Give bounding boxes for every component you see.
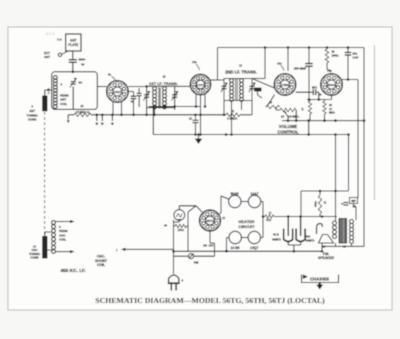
svg-text:1/2 MEG.: 1/2 MEG.: [288, 114, 300, 118]
svg-text:COND: COND: [28, 118, 37, 122]
455 KC IF label: [60, 268, 85, 274]
svg-text:36: 36: [164, 224, 168, 228]
resistor R22 3.3MEG: [226, 109, 252, 121]
svg-text:COIL: COIL: [97, 263, 106, 267]
svg-text:14a: 14a: [327, 69, 332, 73]
osc coil top arrow: [56, 220, 75, 223]
ant plate box 3-A: [57, 34, 81, 51]
tube V1 14Q7: [107, 73, 129, 103]
tube V2 cathode wires: [195, 94, 207, 136]
svg-text:14Q7: 14Q7: [250, 246, 258, 250]
wire B- down left: [308, 121, 310, 135]
heater circle 14A7: [248, 195, 260, 207]
1st IF secondary coil: [163, 87, 167, 109]
capacitor C23 block: [254, 88, 262, 99]
svg-text:1-1A: 1-1A: [46, 88, 50, 94]
osc tuning cond 10: [29, 236, 47, 260]
chassis arrow: [316, 283, 323, 290]
svg-text:MFD: MFD: [312, 88, 317, 90]
speaker label: [318, 252, 335, 260]
AC bus upper: [172, 250, 294, 253]
electrolytic C30B: [272, 217, 293, 242]
speaker voice coil: [317, 224, 326, 249]
resistor R29: [325, 49, 339, 72]
coupling capacitor C28: [296, 88, 322, 100]
svg-text:3-4 .8: 3-4 .8: [46, 32, 54, 36]
capacitor C16: [128, 92, 136, 117]
2nd IF secondary coil: [240, 79, 244, 102]
svg-text:35Y4: 35Y4: [206, 219, 214, 223]
svg-text:34B: 34B: [194, 261, 199, 265]
pilot lamp P36: [164, 210, 185, 228]
wire ant box to tube V1: [97, 86, 106, 88]
1st IF primary coil: [153, 87, 157, 109]
svg-text:15 MEG-Ω: 15 MEG-Ω: [76, 110, 90, 114]
svg-text:CHASSIS: CHASSIS: [310, 276, 329, 281]
heater label text: [238, 219, 255, 229]
wire V2 plate to rail: [209, 48, 218, 81]
ant tuning cond 9: [27, 96, 48, 122]
speaker cone: [319, 235, 334, 244]
wire B- down to output: [336, 133, 350, 218]
grid return bus: [149, 105, 201, 108]
heater circle 14B6: [229, 231, 241, 243]
wire rail corner to IF2: [252, 78, 265, 80]
chassis bracket: [302, 275, 339, 283]
svg-text:5a: 5a: [108, 73, 112, 77]
B+ top rail: [218, 46, 365, 49]
svg-text:13: 13: [239, 64, 243, 68]
wire V4 plate to right: [341, 78, 359, 198]
output transformer secondary: [343, 220, 354, 249]
wire osc gang: [45, 232, 54, 250]
svg-text:CONTROL: CONTROL: [277, 129, 299, 134]
1st IF trimmer C1: [143, 91, 150, 101]
wire cap 36 to ant coil: [72, 62, 75, 73]
svg-text:COND: COND: [30, 256, 39, 260]
svg-text:3-A: 3-A: [57, 38, 63, 42]
resistor R31: [315, 191, 327, 217]
resistor R23 15MEG: [68, 104, 91, 117]
ext ant terminal: [44, 51, 62, 59]
wire C33 connections: [341, 204, 356, 221]
svg-text:14Q7: 14Q7: [114, 90, 122, 94]
tube V1 cathode wires: [113, 102, 123, 117]
svg-text:14y: 14y: [277, 62, 282, 66]
1st IF can outline: [147, 86, 175, 107]
svg-text:ON: ON: [203, 245, 207, 248]
svg-text:22: 22: [231, 109, 235, 113]
svg-text:14B6: 14B6: [281, 83, 289, 87]
heater circle 14Q7: [248, 231, 260, 243]
svg-text:SPEAKER: SPEAKER: [318, 256, 335, 260]
svg-text:50A5: 50A5: [328, 83, 336, 87]
svg-text:14a: 14a: [192, 60, 197, 64]
perm ant coil box: [52, 72, 98, 110]
wire IF2 sec to V3: [252, 79, 275, 89]
1st IF core: [159, 88, 160, 109]
wire ant gang to coil: [45, 90, 52, 96]
svg-text:40MFD: 40MFD: [272, 238, 281, 242]
heater wiring: [221, 196, 264, 252]
avc bus: [91, 114, 226, 116]
electrolytic C30C: [296, 217, 314, 243]
svg-text:180Ω: 180Ω: [332, 54, 340, 58]
2nd IF primary coil: [230, 79, 234, 102]
heater label 14Q7: [250, 246, 258, 250]
svg-text:47Ω: 47Ω: [266, 218, 272, 222]
svg-text:PLATE: PLATE: [68, 43, 78, 47]
wire pot wiper down: [287, 117, 290, 122]
tube V4 50A5: [321, 69, 343, 96]
output transformer core: [339, 219, 347, 244]
svg-text:455 KC. I.F.: 455 KC. I.F.: [60, 268, 85, 274]
switch S34B: [174, 254, 215, 265]
wire V4 grid: [325, 95, 332, 99]
svg-text:17: 17: [269, 211, 272, 215]
AC bus to speaker: [293, 250, 322, 253]
svg-text:150A: 150A: [177, 228, 183, 232]
wire IF1 sec to V2 grid: [175, 85, 191, 87]
wire V1 plate to IF1: [128, 85, 148, 88]
power plug 8: [168, 249, 184, 290]
2nd IF trimmer C3: [221, 82, 228, 92]
gang dashed link: [44, 112, 46, 235]
wire IF2 bottoms: [223, 101, 252, 136]
2nd IF trimmer C4: [249, 82, 256, 92]
capacitor C33: [344, 198, 358, 209]
output transformer primary: [333, 218, 337, 239]
svg-text:14A7: 14A7: [197, 83, 205, 87]
wire det bus down: [363, 48, 366, 247]
svg-text:24: 24: [281, 114, 285, 118]
scan artifact vertical line: [46, 32, 375, 200]
capacitor C20a: [345, 48, 359, 80]
heater circle 50A5: [229, 195, 241, 207]
capacitor C36 6800: [69, 58, 86, 67]
trimmer capacitor 8A: [70, 78, 83, 88]
svg-text:ANT: ANT: [44, 55, 50, 59]
caption: [95, 296, 325, 305]
heater label 14B6: [230, 246, 239, 250]
svg-text:30MFD: 30MFD: [306, 239, 315, 243]
wire V2 plate to IF2: [210, 79, 225, 81]
svg-text:36: 36: [81, 63, 85, 67]
svg-text:2ND I.F. TRANS.: 2ND I.F. TRANS.: [225, 69, 257, 74]
svg-text:1ST I.F. TRANS.: 1ST I.F. TRANS.: [149, 81, 178, 86]
capacitor C250MMF: [294, 48, 313, 100]
svg-text:OFF: OFF: [209, 245, 214, 248]
svg-text:MEG: MEG: [329, 111, 335, 115]
label 1-1A: [46, 88, 50, 94]
svg-text:ANT: ANT: [70, 39, 77, 43]
svg-text:23: 23: [80, 104, 84, 108]
capacitor C21: [189, 114, 199, 135]
avc arrows under tube V1: [95, 114, 114, 126]
resistor R27 470K: [301, 98, 325, 120]
chassis ground: [195, 133, 202, 144]
lamp top wire: [179, 206, 202, 212]
svg-text:CIRCUIT: CIRCUIT: [238, 224, 255, 229]
tube V3 14B6: [274, 62, 296, 96]
B+ filter bus: [287, 215, 337, 218]
diode load resistor R25: [266, 95, 280, 109]
svg-text:14 B6: 14 B6: [230, 246, 239, 250]
B+ rail to output: [301, 190, 349, 217]
svg-text:4MF: 4MF: [351, 200, 356, 203]
tube V2 14A7: [190, 60, 210, 95]
svg-text:COIL: COIL: [60, 102, 67, 106]
B- bus: [153, 108, 348, 136]
svg-text:630A: 630A: [315, 201, 318, 207]
wire V5 to heater bus: [219, 213, 221, 214]
svg-text:250 MMF: 250 MMF: [294, 67, 306, 71]
resistor R150A: [174, 206, 197, 252]
svg-text:30C: 30C: [306, 235, 311, 239]
osc shunt coil label: [95, 255, 108, 268]
perm osc coil L2: [52, 221, 69, 254]
tube V5 35Y4: [200, 210, 226, 231]
osc coil bottom arrow: [56, 250, 75, 253]
1st IF trimmer C2: [172, 91, 179, 101]
heater label 50A5: [230, 192, 238, 196]
svg-text:6800: 6800: [79, 58, 86, 62]
line7 arrow: [116, 248, 174, 253]
heater label 14A7: [250, 192, 258, 196]
electrolytic bottoms: [288, 242, 300, 252]
wire trimmer to coil bottom: [72, 87, 74, 110]
resistor R26 10MEG: [323, 100, 335, 121]
svg-text:30-B: 30-B: [273, 233, 279, 237]
svg-text:SCHEMATIC DIAGRAM—MODEL 56TG,: SCHEMATIC DIAGRAM—MODEL 56TG, 56TH, 56TJ…: [95, 296, 325, 305]
volume control pot R24: [280, 108, 300, 118]
ant coil winding L1: [53, 76, 57, 109]
wire pot ends: [276, 107, 298, 122]
svg-text:3.3MEG: 3.3MEG: [227, 117, 237, 121]
svg-text:CAP: CAP: [353, 55, 359, 59]
det bus: [282, 119, 364, 122]
wire rail to IF2 primary: [264, 48, 266, 79]
capacitor C15 plates: [137, 88, 142, 107]
resistor R17 47ohm: [263, 211, 310, 222]
svg-text:COIL: COIL: [59, 238, 66, 242]
wire rail to V3 top: [287, 48, 289, 72]
speaker bottom wire: [321, 243, 364, 253]
2nd IF transformer label: [225, 64, 257, 75]
wire ext-ant to box: [62, 51, 68, 54]
avc bus left arrow stub: [67, 115, 70, 123]
wire V5 bottom: [210, 231, 215, 256]
wire box to cap 36: [72, 51, 74, 59]
1st IF transformer label: [149, 75, 178, 86]
wire IF1 bottoms: [145, 107, 174, 117]
on-off label: [203, 245, 214, 248]
svg-text:12: 12: [162, 75, 166, 79]
svg-text:21: 21: [189, 117, 193, 121]
2nd IF core: [236, 79, 238, 101]
2nd IF can outline: [224, 79, 252, 101]
volume control label: [277, 124, 299, 134]
